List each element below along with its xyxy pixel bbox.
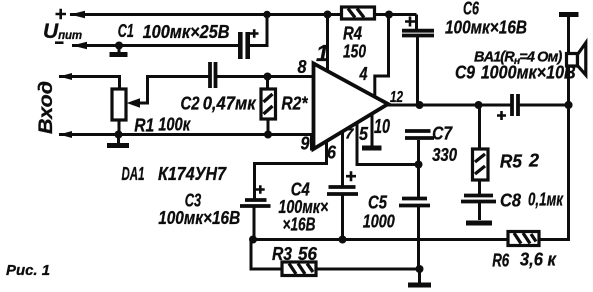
wire speaker to node [567,66,570,105]
svg-text:R3: R3 [272,244,292,264]
node output C6 branch [416,101,424,109]
capacitor C1 [240,29,258,59]
svg-text:R2*: R2* [281,94,308,114]
svg-text:2: 2 [528,151,539,171]
wire pin 1 drop [326,15,329,72]
node pin1 tee on + rail [324,11,332,19]
svg-text:Вход: Вход [36,81,57,134]
pin 5 wire [357,123,419,165]
svg-text:1000: 1000 [363,212,395,232]
node C3 bottom [249,236,257,244]
ground chassis bar main [408,283,431,288]
node C4 bottom [339,236,347,244]
wire − supply rail [72,44,239,47]
label − of Uпит [55,41,64,44]
wire bottom feedback rail [250,238,509,241]
capacitor C2 [210,62,216,88]
node speaker tee [564,101,572,109]
wire R3 to ground node [316,268,420,271]
svg-text:C5: C5 [368,193,388,213]
svg-text:R4: R4 [343,24,362,44]
wire R3 left riser [251,240,282,270]
svg-text:100мк×16В: 100мк×16В [445,18,527,38]
wire + supply rail [70,13,417,16]
capacitor C5 [399,165,430,270]
pin 7 wire to C4 [341,132,344,187]
wire C1 to + rail [249,15,267,46]
svg-text:330: 330 [432,145,457,165]
svg-text:0,47мк: 0,47мк [203,94,257,114]
svg-text:100мк×16В: 100мк×16В [158,208,240,228]
arrowhead − supply [72,42,87,49]
resistor R6 [508,232,539,246]
svg-text:1000мк×10В: 1000мк×10В [481,63,576,83]
svg-text:Рис. 1: Рис. 1 [6,263,50,279]
capacitor C9 [497,94,518,120]
node R2 bottom [264,131,272,139]
svg-text:0,1мк: 0,1мк [528,190,564,210]
svg-text:8: 8 [298,57,307,77]
node pin5 C7 C5 [415,161,423,169]
svg-text:R5: R5 [500,152,523,172]
node output R5 branch [475,101,483,109]
resistor R5 [473,105,489,194]
wire speaker top [567,15,570,55]
wire chassis stub R1 [117,135,120,144]
resistor R4 [342,7,375,19]
input upper wire [59,77,120,90]
node main ground [416,265,424,273]
capacitor C7 [405,131,434,165]
ground chassis bar top-left [110,52,128,57]
resistor R2 [261,77,276,135]
svg-text:C7: C7 [432,124,453,144]
node junction on − rail [115,42,123,50]
svg-text:9: 9 [301,134,310,154]
svg-text:DA1: DA1 [122,164,145,184]
svg-text:7: 7 [345,126,354,143]
node C1 riser on + rail [263,11,271,19]
node R2 top [264,73,272,81]
wire C2 to pin 8 [217,75,314,78]
ground chassis bar speaker [559,12,579,17]
pin 12 output wire [386,104,511,107]
arrowhead input upper [59,73,72,80]
wire pin 4 riser [375,15,389,98]
arrowhead input lower [59,131,72,138]
input lower wire [59,135,314,150]
svg-text:C2: C2 [181,94,200,114]
capacitor C8 [461,196,496,221]
R1 wiper arrow [127,77,209,108]
svg-text:100к: 100к [158,115,191,135]
svg-text:1: 1 [316,40,329,66]
node R1 bottom [115,131,123,139]
node R4 right on + rail [385,11,393,19]
pin 10 wire to ground [371,114,374,146]
wire main ground stub [418,269,421,283]
svg-text:3,6 к: 3,6 к [520,250,557,270]
potentiometer R1 [112,89,126,135]
svg-text:10: 10 [374,116,390,138]
svg-text:5: 5 [359,124,369,144]
ground chassis bar below R1 [107,143,129,148]
label + of Uпит [56,9,67,19]
svg-text:R1: R1 [134,116,154,136]
svg-text:C9: C9 [455,63,475,83]
ground chassis bar pin 10 [362,146,382,151]
resistor R3 [282,262,316,276]
svg-text:100мк×25В: 100мк×25В [143,22,230,42]
svg-text:К174УН7: К174УН7 [158,164,227,184]
svg-text:C8: C8 [500,191,521,211]
pin 6 wire to C3 [255,142,327,200]
svg-text:R6: R6 [492,251,510,271]
wire C9 to speaker node [520,104,569,107]
capacitor C3 [240,185,271,239]
svg-text:C1: C1 [118,21,134,41]
svg-text:C6: C6 [463,0,480,19]
capacitor C4 [327,171,358,239]
wire chassis stub [118,46,121,53]
svg-text:12: 12 [390,89,403,106]
speaker BA1 [567,43,586,75]
ground chassis bar C8 [466,221,492,226]
svg-text:6: 6 [327,143,337,163]
svg-text:56: 56 [298,244,318,264]
op-amp DA1 triangle [314,64,389,150]
arrowhead + supply [70,11,85,18]
wire output right drop to R6 [539,105,569,240]
svg-text:4: 4 [359,64,368,84]
capacitor C6 [402,15,434,106]
svg-text:150: 150 [343,42,366,62]
svg-text:×16В: ×16В [283,215,316,235]
